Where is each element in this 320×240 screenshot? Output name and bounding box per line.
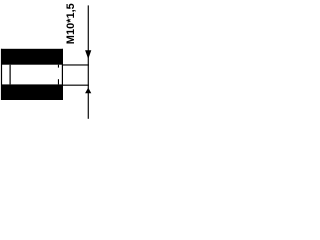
svg-text:M10*1,5: M10*1,5 [65,3,77,44]
